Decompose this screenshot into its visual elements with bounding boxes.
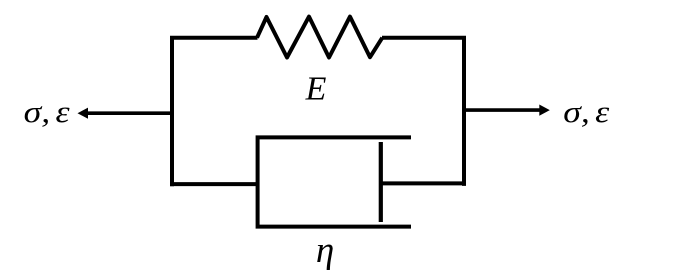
svg-text:E: E xyxy=(305,71,327,108)
svg-text:σ,ε: σ,ε xyxy=(563,96,610,130)
svg-text:η: η xyxy=(316,230,334,271)
svg-text:σ,ε: σ,ε xyxy=(24,95,71,129)
